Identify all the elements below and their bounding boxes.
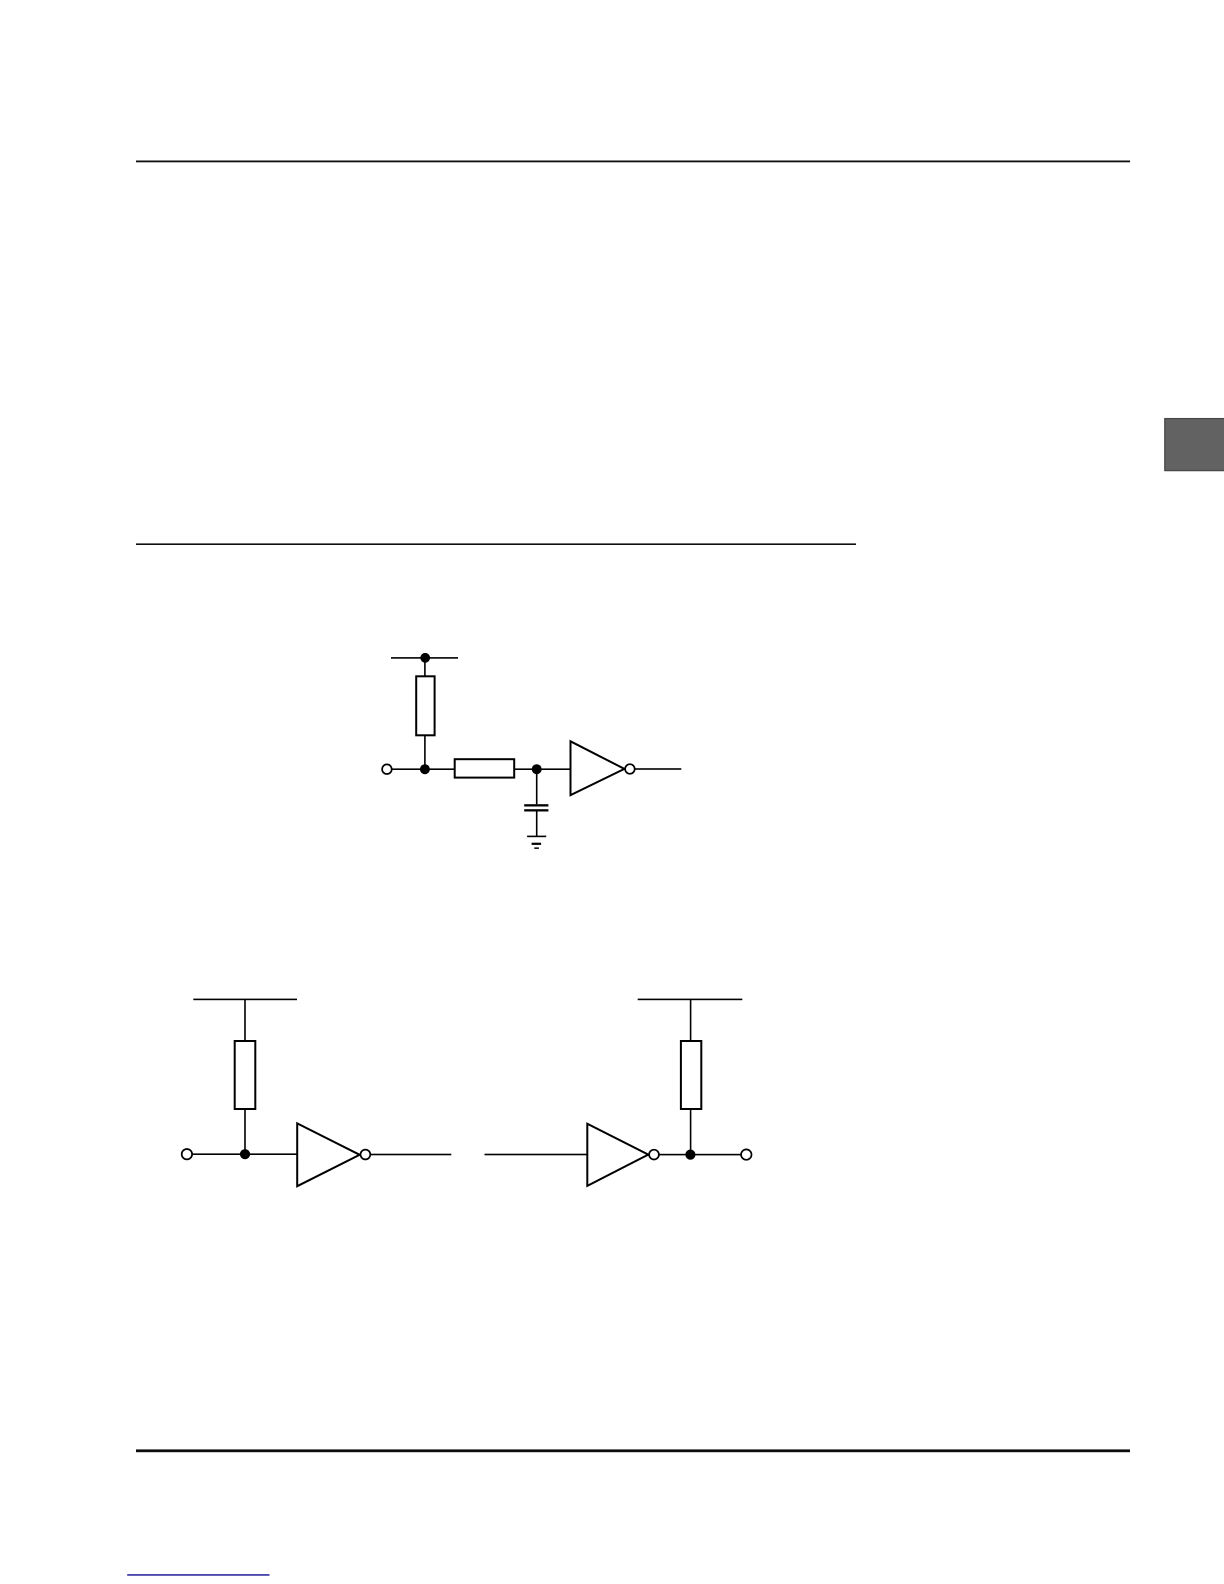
node B <box>532 764 542 774</box>
input terminal 1 <box>382 764 392 774</box>
wire R2 to U1 <box>514 768 571 770</box>
wire rail1 to R1 <box>424 658 426 677</box>
inverter bubble U1 <box>625 764 635 774</box>
inverter bubble U3 <box>649 1150 659 1160</box>
supply rail 1 <box>391 657 458 659</box>
inverter U2 <box>297 1123 360 1186</box>
wire R4 to node D <box>690 1109 692 1155</box>
wire R1 to node A <box>424 735 426 769</box>
wire rail2 to R3 <box>244 999 246 1041</box>
resistor R4 <box>681 1041 701 1109</box>
ground <box>527 836 546 849</box>
output terminal 3 <box>741 1149 751 1159</box>
resistor R1 <box>416 676 434 735</box>
header rule <box>136 161 1130 163</box>
wire C1 to ground <box>536 812 538 837</box>
input wire 3 <box>485 1154 588 1156</box>
footer link underline <box>127 1574 269 1576</box>
node D <box>685 1150 695 1160</box>
wire U3 to node D <box>659 1154 690 1156</box>
capacitor C1 <box>524 804 548 811</box>
supply rail 2 <box>193 999 297 1001</box>
supply rail 3 <box>638 999 743 1001</box>
wire input2 to U2 <box>192 1153 297 1155</box>
junction dot on rail 1 <box>420 653 430 663</box>
wire R3 to node C <box>244 1109 246 1154</box>
resistor R2 <box>455 759 515 777</box>
wire input to R2 <box>392 768 455 770</box>
wire node D to output terminal <box>690 1154 741 1156</box>
output wire 1 <box>635 768 681 770</box>
wire rail3 to R4 <box>690 999 692 1042</box>
inverter U3 <box>587 1124 648 1186</box>
node C <box>240 1149 250 1159</box>
input terminal 2 <box>182 1149 192 1159</box>
footer rule <box>136 1449 1130 1452</box>
output wire 2 <box>371 1154 452 1156</box>
buffer U1 <box>571 741 625 795</box>
side tab <box>1165 419 1224 471</box>
wire node B to C1 <box>536 769 538 804</box>
resistor R3 <box>235 1041 256 1109</box>
node A <box>420 764 430 774</box>
inverter bubble U2 <box>361 1150 371 1160</box>
section rule <box>136 543 856 545</box>
